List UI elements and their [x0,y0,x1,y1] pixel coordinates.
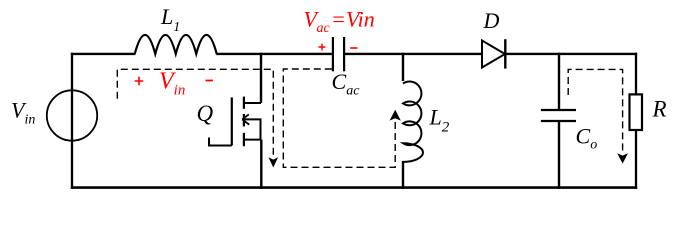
wire MOSFET drain branch [260,53,262,103]
wire MOSFET source branch [260,140,262,189]
svg-text:Vin: Vin [159,69,185,99]
dashed loop 1 (input loop) [117,69,273,156]
wire top segment (Cac to diode) [345,53,482,55]
wire L2 top stub [402,53,404,81]
wire Co top stub [558,53,560,110]
resistor R [630,94,643,130]
svg-text:Cac: Cac [332,69,361,99]
svg-text:Vin: Vin [11,97,35,127]
transistor Q (MOSFET) [209,97,261,147]
wire left vertical [71,53,73,189]
diode D [482,39,505,68]
inductor L1 [135,35,217,54]
wire right vertical upper (to R) [635,53,637,95]
svg-text:ac: ac [317,21,331,36]
dashed loop 2 arrowhead [390,110,401,121]
svg-text:Co: Co [576,124,598,153]
source Vin circle [47,90,97,140]
wire right vertical lower (R to bottom) [635,130,637,189]
capacitor Co [541,110,576,121]
label - polarity under L1 (red) [206,80,213,82]
svg-text:D: D [483,8,500,33]
label + polarity under L1 (red) [135,77,144,86]
capacitor Cac [333,37,344,71]
svg-text:Q: Q [197,101,214,126]
wire Co bottom stub [558,121,560,189]
label - polarity at Cac (red) [350,47,357,49]
svg-text:R: R [652,97,667,122]
wire L2 bottom stub [402,161,404,189]
wire top-right segment (diode to right corner) [505,53,637,55]
label + polarity at Cac (red) [319,44,326,51]
wire top-left segment [71,53,136,55]
dashed loop 2 (Cac/L2 loop) [283,69,395,167]
dashed loop 1 arrowhead [269,157,279,167]
svg-text:=Vin: =Vin [331,6,375,31]
wire top middle segment (L1 to Cac) [216,53,332,55]
svg-text:L2: L2 [429,105,450,136]
svg-text:L1: L1 [160,4,180,35]
dashed loop 3 arrowhead [617,153,628,163]
dashed loop 3 (output loop) [568,69,622,152]
inductor L2 [403,82,423,162]
wire bottom rail [71,186,637,189]
